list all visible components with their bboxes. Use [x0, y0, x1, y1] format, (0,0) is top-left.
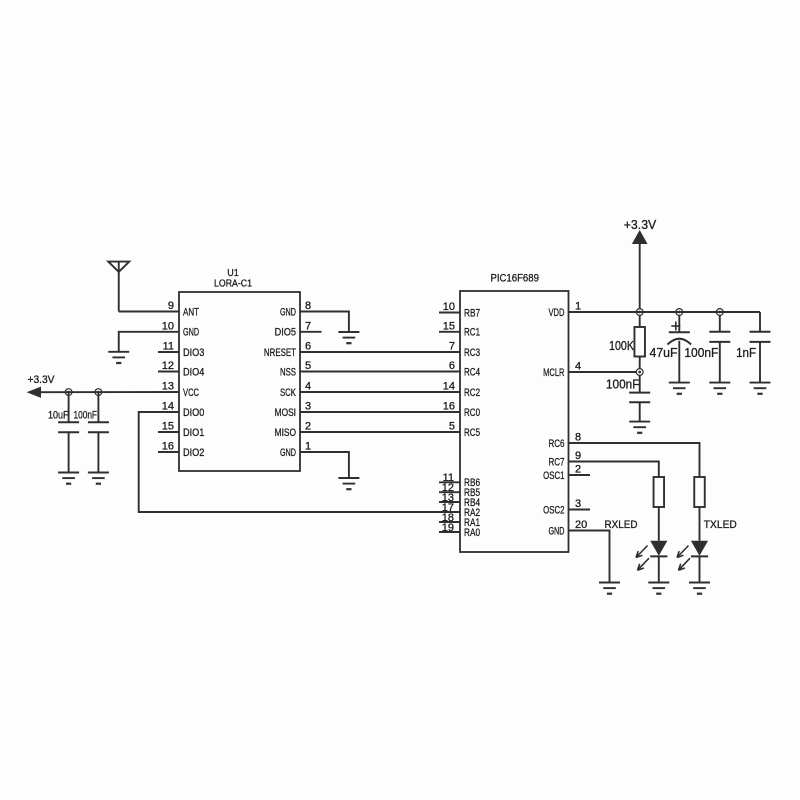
ground below 1nF: [750, 383, 771, 394]
resistor TXLED series: [694, 477, 705, 507]
svg-text:VDD: VDD: [548, 307, 564, 319]
U1 pin 12 DIO4 stub: [158, 371, 179, 373]
svg-text:100nF: 100nF: [684, 345, 718, 360]
svg-text:ANT: ANT: [183, 306, 199, 318]
wire TXLED cathode to ground: [699, 556, 701, 582]
svg-text:16: 16: [443, 401, 455, 413]
wire antenna to U1 ANT pin 9: [119, 311, 179, 313]
wire resistor 100K to MCLR node: [639, 357, 641, 369]
svg-text:7: 7: [305, 320, 311, 332]
wire PIC MCLR pin 4: [569, 371, 637, 373]
LED RXLED emission arrows: [636, 546, 649, 571]
svg-text:DIO4: DIO4: [183, 366, 204, 378]
svg-text:20: 20: [575, 519, 587, 531]
svg-text:15: 15: [162, 421, 174, 433]
capacitor C 100nF right: [709, 332, 730, 342]
svg-text:2: 2: [305, 421, 311, 433]
node junction at C 100nF: [95, 389, 102, 396]
svg-text:RC5: RC5: [464, 427, 480, 439]
U1 pin 7 DIO5 stub: [300, 331, 322, 333]
ground below 47uF: [669, 383, 690, 394]
svg-text:DIO2: DIO2: [183, 447, 204, 459]
wire U1 GND pin 8 to ground: [300, 312, 349, 333]
wire 1nF to ground: [759, 342, 761, 383]
svg-text:15: 15: [443, 320, 455, 332]
PIC pin 15 RC1 stub: [439, 331, 460, 333]
svg-text:LORA-C1: LORA-C1: [214, 278, 252, 290]
svg-text:GND: GND: [280, 447, 296, 459]
resistor RXLED series: [654, 477, 665, 507]
svg-text:PIC16F689: PIC16F689: [490, 273, 539, 285]
wire rail to capacitor 47uF: [678, 315, 680, 332]
wire PIC to TXLED resistor: [569, 443, 700, 477]
wire resistor to TXLED: [699, 507, 701, 541]
node junction 100nF: [716, 309, 723, 316]
svg-text:2: 2: [575, 464, 581, 476]
wire +3.3V down to VDD rail: [639, 243, 641, 309]
node junction MCLR: [636, 369, 643, 376]
wire junction to resistor 100K: [639, 315, 641, 327]
svg-text:9: 9: [168, 300, 174, 312]
LED RXLED: [650, 541, 667, 557]
ground for U1 pin 8: [338, 332, 359, 343]
svg-text:10: 10: [443, 301, 455, 313]
svg-text:8: 8: [575, 432, 581, 444]
wire U1 GND pin 10 to ground: [119, 332, 179, 352]
svg-text:GND: GND: [280, 306, 296, 318]
svg-text:NSS: NSS: [280, 366, 296, 378]
wire SCK-RC2: [300, 391, 460, 393]
LED TXLED emission arrows: [677, 546, 690, 571]
wire RXLED cathode to ground: [658, 556, 660, 582]
wire +3.3V to U1 VCC pin 13: [40, 391, 180, 393]
svg-text:100nF: 100nF: [74, 409, 98, 421]
svg-text:RA0: RA0: [464, 527, 480, 539]
svg-text:RB7: RB7: [464, 307, 480, 319]
svg-text:100K: 100K: [609, 338, 634, 353]
svg-text:100nF: 100nF: [606, 376, 639, 391]
svg-text:3: 3: [305, 401, 311, 413]
svg-text:GND: GND: [183, 327, 199, 339]
capacitor C 100nF MCLR: [629, 393, 650, 403]
PIC pin 2 OSC1 stub: [569, 474, 591, 476]
svg-text:5: 5: [449, 421, 455, 433]
wire PIC GND pin 20 to ground: [569, 531, 610, 583]
LED TXLED: [691, 541, 708, 557]
wire VDD rail: [569, 311, 761, 313]
ground below antenna: [108, 352, 129, 363]
svg-text:7: 7: [449, 341, 455, 353]
power arrow +3.3V left: [28, 387, 41, 397]
U1 pin 16 DIO2 stub: [158, 451, 179, 453]
capacitor C 47uF electrolytic: [668, 332, 692, 344]
PIC pin 11 RB6 stub: [439, 481, 460, 483]
svg-text:10: 10: [162, 320, 174, 332]
svg-text:19: 19: [442, 522, 454, 534]
svg-text:MCLR: MCLR: [543, 367, 564, 379]
svg-text:RC3: RC3: [464, 347, 480, 359]
svg-text:DIO0: DIO0: [183, 407, 204, 419]
svg-text:DIO5: DIO5: [275, 327, 296, 339]
svg-text:8: 8: [305, 300, 311, 312]
wire capacitor to ground: [639, 402, 641, 421]
svg-text:RC0: RC0: [464, 407, 480, 419]
resistor R 100K: [634, 327, 645, 357]
ground for U1 pin 1: [338, 478, 359, 489]
wire rail to capacitor 100nF right: [719, 315, 721, 331]
ground below 100nF right: [709, 383, 730, 394]
node junction 47uF: [676, 309, 683, 316]
wire to capacitor 100nF: [97, 392, 99, 422]
PIC pin 3 OSC2 stub: [569, 509, 591, 511]
svg-text:5: 5: [305, 360, 311, 372]
svg-text:1: 1: [305, 441, 311, 453]
ground below MCLR capacitor: [629, 422, 650, 433]
wire NRESET-RC3: [300, 351, 460, 353]
capacitor C 10uF: [58, 422, 79, 432]
op-amp U1 LORA-C1 module body: [179, 292, 300, 471]
PIC pin 10 RB7 stub: [439, 312, 460, 314]
svg-text:4: 4: [305, 381, 311, 393]
wire 47uF to ground: [678, 341, 680, 383]
svg-text:6: 6: [305, 341, 311, 353]
svg-text:3: 3: [575, 498, 581, 510]
wire 100nF to ground: [97, 432, 99, 472]
capacitor C 1nF: [750, 332, 771, 342]
svg-text:1: 1: [575, 301, 581, 313]
svg-text:MOSI: MOSI: [275, 407, 296, 419]
U1 pin 15 DIO1 stub: [158, 431, 179, 433]
wire to capacitor 10uF: [68, 392, 70, 422]
wire rail corner down to capacitor 1nF: [759, 312, 761, 332]
svg-text:6: 6: [449, 360, 455, 372]
wire resistor to RXLED: [658, 507, 660, 541]
PIC pin 12 RB5 stub: [439, 491, 460, 493]
svg-text:MISO: MISO: [275, 427, 297, 439]
ground below 10uF: [58, 473, 79, 484]
svg-text:RXLED: RXLED: [605, 519, 638, 531]
svg-text:RC2: RC2: [464, 387, 480, 399]
svg-text:DIO3: DIO3: [183, 347, 204, 359]
node junction VDD/100K: [636, 309, 643, 316]
svg-text:RC1: RC1: [464, 327, 480, 339]
svg-text:13: 13: [162, 381, 174, 393]
svg-text:9: 9: [575, 450, 581, 462]
ground below RXLED: [648, 583, 669, 594]
svg-text:1nF: 1nF: [736, 345, 756, 360]
svg-text:RC7: RC7: [548, 456, 564, 468]
svg-text:11: 11: [163, 341, 174, 353]
svg-text:14: 14: [443, 381, 455, 393]
svg-text:RC6: RC6: [548, 438, 564, 450]
svg-text:16: 16: [162, 441, 174, 453]
wire 10uF to ground: [68, 432, 70, 472]
wire NSS-RC4: [300, 371, 460, 373]
PIC pin 18 RA1 stub: [439, 521, 460, 523]
svg-text:SCK: SCK: [280, 387, 297, 399]
svg-text:GND: GND: [548, 525, 564, 537]
svg-text:RC4: RC4: [464, 366, 480, 378]
PIC pin 19 RA0 stub: [439, 531, 460, 533]
wire U1 DIO0 pin 14 to PIC RA2 pin 17: [139, 412, 460, 512]
svg-text:OSC1: OSC1: [543, 470, 564, 482]
svg-text:OSC2: OSC2: [543, 504, 564, 516]
svg-text:4: 4: [575, 361, 581, 373]
svg-text:14: 14: [162, 401, 174, 413]
capacitor C 100nF left: [88, 422, 109, 432]
svg-text:+3.3V: +3.3V: [28, 374, 56, 386]
svg-text:DIO1: DIO1: [183, 427, 204, 439]
node junction at C 10uF: [65, 389, 72, 396]
PIC pin 13 RB4 stub: [439, 501, 460, 503]
wire MISO-RC5: [300, 431, 460, 433]
svg-text:12: 12: [162, 360, 174, 372]
svg-text:+3.3V: +3.3V: [624, 217, 657, 232]
U1 pin 11 DIO3 stub: [158, 351, 179, 353]
svg-text:VCC: VCC: [183, 387, 199, 399]
wire 100nF right to ground: [719, 342, 721, 383]
antenna: [108, 262, 129, 312]
polarity plus sign 47uF: [671, 322, 680, 331]
wire MCLR node to capacitor: [639, 375, 641, 392]
svg-text:TXLED: TXLED: [704, 519, 737, 531]
svg-text:47uF: 47uF: [650, 345, 678, 360]
wire MOSI-RC0: [300, 411, 460, 413]
power arrow +3.3V up: [633, 231, 647, 244]
wire U1 GND pin 1 to ground: [300, 452, 349, 478]
ground below 100nF left: [88, 473, 109, 484]
svg-text:10uF: 10uF: [48, 409, 69, 421]
ground for PIC GND: [599, 583, 620, 594]
ground below TXLED: [689, 583, 710, 594]
svg-text:NRESET: NRESET: [264, 347, 296, 359]
microcontroller PIC16F689 body: [460, 291, 569, 552]
wire PIC to RXLED resistor: [569, 462, 659, 478]
